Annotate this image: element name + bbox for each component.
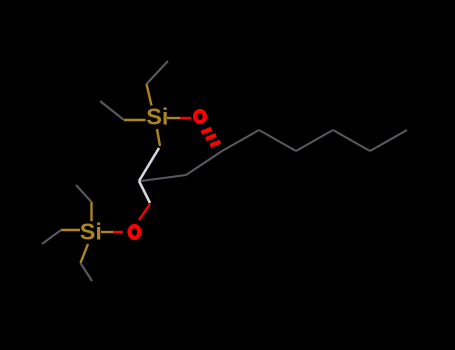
bond Si1-O1 (olive half) [167,117,180,119]
bond CH2-CH3 top ethyl tail (gray) [147,61,169,84]
alkyl chain bond 5 (dark gray) [370,130,407,151]
alkyl chain bond 3 (dark gray) [296,130,333,151]
oxygen atom label O2 (bottom silyl ether oxygen, drawn as thick ring) [130,226,140,238]
oxygen atom label O1 (top silyl ether oxygen, drawn as thick ring) [195,111,205,122]
bond Si1-CH2 top ethyl inner segment (olive) [147,84,152,106]
bond C-C bright backbone segment A-B [139,148,159,181]
silicon atom label Si2 (bottom triethylsilyl) [80,219,102,245]
bond Si2-O2 (olive half) [101,231,113,233]
bond stereocenter-CH2 (dark gray, center) [186,151,222,175]
alkyl chain bond 2 (dark gray) [259,130,296,151]
bond C-C bright backbone segment B-C [139,181,150,203]
bond CH2-CH3 top ethyl tail of Si2 (gray) [76,185,92,202]
silicon atom label Si1 (top triethylsilyl) [146,104,168,130]
bond Si2-CH2 left ethyl inner segment (olive) [61,229,80,231]
bond CH2-CH3 left ethyl tail of Si2 (gray) [42,230,61,244]
bond Si1-CH2 left ethyl inner segment (olive) [124,119,146,121]
bond Si2-CH2 down ethyl inner segment (olive) [81,244,89,263]
svg-text:Si: Si [146,104,168,130]
bond Si2-O2 (red half) [113,231,123,233]
alkyl chain bond 4 (dark gray) [333,130,370,151]
alkyl chain bond 1 (dark gray) [222,130,259,151]
bond CH2-CH junction (dark gray, center horizontal) [141,175,186,181]
bond Si2-CH2 top ethyl inner segment (olive) [90,202,92,221]
bond CH2-CH3 down ethyl tail of Si2 (gray) [81,263,93,281]
bond CH2-CH3 left ethyl tail (gray) [100,101,124,120]
hashed wedge bond O1 to stereocenter (red hash marks) [201,129,220,146]
bond Si1-C down segment (olive) [157,129,160,146]
svg-text:Si: Si [80,219,102,245]
bond C-O2 (red) into bottom oxygen [139,204,150,220]
bond Si1-O1 (red half) [180,117,191,119]
